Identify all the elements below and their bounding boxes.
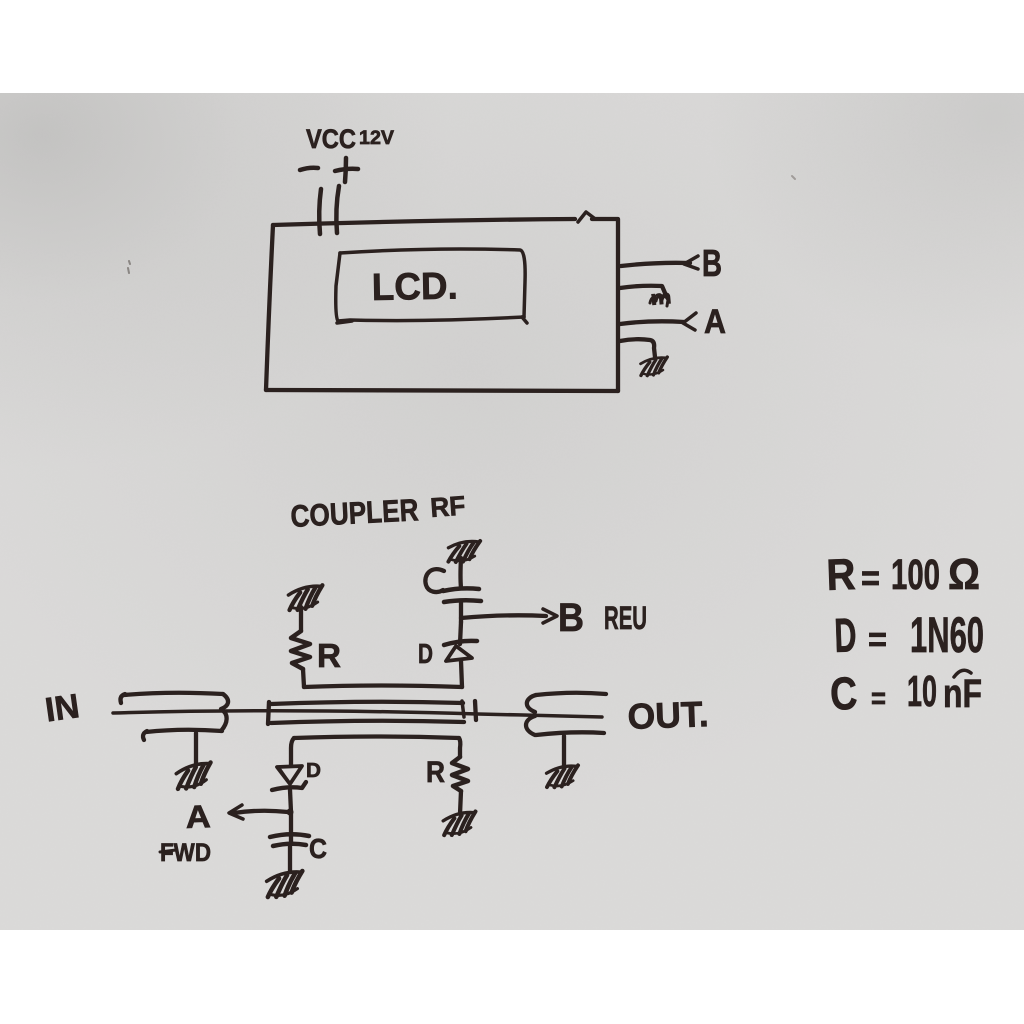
svg-text:12V: 12V xyxy=(359,128,394,149)
svg-text:R: R xyxy=(426,756,445,789)
svg-text:D: D xyxy=(306,760,321,782)
svg-text:LCD.: LCD. xyxy=(371,266,458,309)
svg-text:R: R xyxy=(317,637,341,674)
svg-text:10: 10 xyxy=(907,667,937,716)
svg-text:100: 100 xyxy=(891,551,940,599)
svg-text:1N60: 1N60 xyxy=(910,607,984,663)
svg-text:m: m xyxy=(650,286,673,310)
svg-text:D: D xyxy=(834,609,858,663)
svg-text:REU: REU xyxy=(604,600,647,636)
svg-text:D: D xyxy=(418,638,433,669)
svg-text:IN: IN xyxy=(43,687,82,729)
svg-text:C: C xyxy=(829,667,859,720)
svg-text:=: = xyxy=(871,682,886,715)
svg-text:=: = xyxy=(861,557,880,598)
svg-text:B: B xyxy=(702,243,722,285)
svg-text:=: = xyxy=(868,621,887,659)
svg-text:FWD: FWD xyxy=(160,839,211,867)
svg-text:Ω: Ω xyxy=(948,550,980,599)
svg-text:A: A xyxy=(704,303,726,341)
svg-text:COUPLER: COUPLER xyxy=(290,492,420,534)
svg-text:RF: RF xyxy=(429,491,466,523)
svg-text:VCC: VCC xyxy=(306,124,356,154)
svg-text:nF: nF xyxy=(943,672,982,716)
svg-text:R: R xyxy=(826,550,857,600)
svg-text:A: A xyxy=(185,798,211,835)
svg-text:C: C xyxy=(309,833,327,864)
svg-text:B: B xyxy=(558,596,584,640)
svg-text:OUT.: OUT. xyxy=(627,693,709,737)
